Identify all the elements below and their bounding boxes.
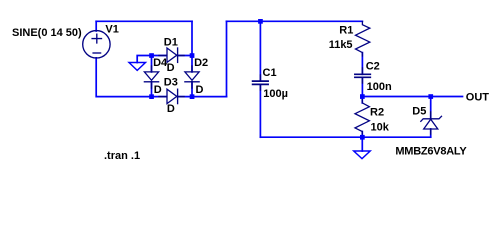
wire V1 top stub [95, 21, 97, 31]
diode D4 cathode lead [151, 82, 153, 88]
svg-text:100n: 100n [367, 81, 392, 93]
svg-text:D2: D2 [194, 57, 208, 69]
zener diode D5 anode lead [430, 129, 432, 134]
capacitor C1 bottom lead stub [259, 84, 261, 90]
wire D4 bottom stub [151, 82, 153, 97]
junction node D5 top [428, 94, 433, 99]
svg-text:C2: C2 [366, 60, 380, 72]
svg-text:MMBZ6V8ALY: MMBZ6V8ALY [395, 145, 467, 157]
svg-text:10k: 10k [371, 121, 390, 133]
wire C1 top lead [259, 21, 261, 80]
wire C2 bottom lead [361, 77, 363, 96]
svg-text:100µ: 100µ [263, 88, 288, 100]
svg-text:D: D [154, 84, 162, 96]
svg-text:D: D [167, 62, 175, 74]
diode D3 cathode lead [178, 96, 184, 98]
V1 plus sign [92, 34, 101, 43]
wire OUT rail [362, 96, 462, 98]
diode D2 cathode lead [191, 82, 193, 88]
diode D1 body [167, 48, 177, 62]
wire bridge top rail right segment [178, 55, 192, 57]
wire R1 bottom lead to C2 [361, 53, 363, 75]
zener diode D5 cathode lead [430, 112, 432, 119]
capacitor C1 top lead stub [259, 75, 261, 80]
junction node C2/R2/OUT [360, 94, 365, 99]
junction node bridge top-right [190, 53, 195, 58]
diode D2 cathode bar [185, 81, 199, 83]
junction node top rail at C1 [258, 19, 263, 24]
wire ground stub right [361, 137, 363, 151]
wire bottom rail from C1 to D5 [260, 136, 430, 138]
svg-text:SINE(0 14 50): SINE(0 14 50) [12, 27, 82, 39]
wire top rail net B from corner to R1 pin [227, 20, 363, 22]
svg-text:V1: V1 [105, 23, 118, 35]
zener diode D5 cathode bar with bent ends [421, 116, 442, 121]
resistor R1 [356, 22, 370, 57]
capacitor C2 bottom lead stub [361, 77, 363, 83]
wire R2 bottom stub [361, 132, 363, 138]
wire riser net B down to bridge bottom rail [226, 21, 228, 96]
capacitor C2 top lead stub [361, 68, 363, 74]
junction node bridge bottom-left [149, 94, 154, 99]
ground flag right [354, 151, 371, 159]
svg-text:D1: D1 [164, 37, 178, 49]
wire D4 top stub [151, 56, 153, 72]
diode D2 body [185, 72, 199, 80]
voltage source V1 circle [83, 31, 110, 58]
diode D4 cathode bar [144, 81, 158, 83]
svg-text:D3: D3 [164, 77, 178, 89]
V1 minus sign [93, 52, 101, 54]
diode D2 anode lead [191, 66, 193, 72]
wire bridge bottom rail right segment [178, 96, 227, 98]
diode D1 cathode bar [177, 48, 179, 62]
diode D1 cathode lead [178, 55, 184, 57]
wire bridge bottom rail mid segment [152, 96, 167, 98]
ground flag left [129, 63, 146, 71]
diode D3 anode lead [159, 96, 167, 98]
diode D3 body [167, 89, 177, 103]
wire V1 bottom lead to bridge bottom rail [96, 58, 151, 97]
svg-text:R2: R2 [370, 107, 384, 119]
junction node bridge top-left [149, 53, 154, 58]
zener diode D5 body [424, 119, 438, 129]
wire D5 bottom lead [430, 129, 432, 137]
junction node bridge bottom-right [190, 94, 195, 99]
wire C1 bottom lead down to bottom rail [259, 85, 261, 137]
svg-text:D5: D5 [412, 106, 426, 118]
junction node bottom rail at R2/ground [360, 135, 365, 140]
svg-text:.tran .1: .tran .1 [104, 150, 140, 162]
resistor R2 [355, 100, 369, 135]
svg-text:C1: C1 [263, 67, 277, 79]
wire ground jog at bridge top-left [137, 56, 151, 63]
wire bridge top rail left segment [152, 55, 167, 57]
svg-text:OUT: OUT [466, 91, 490, 103]
wire R2 top stub [361, 97, 363, 103]
diode D3 cathode bar [177, 89, 179, 103]
wire top rail net A from V1 to bridge riser [96, 20, 192, 22]
diode D4 anode lead [151, 66, 153, 72]
wire D5 top lead [430, 97, 432, 119]
wire D2 top stub [191, 56, 193, 72]
capacitor C1 plates [253, 81, 269, 84]
svg-text:D: D [167, 103, 175, 115]
svg-text:D: D [196, 84, 204, 96]
svg-text:R1: R1 [339, 25, 353, 37]
diode D1 anode lead [159, 55, 167, 57]
wire riser net A down to bridge top-right node [191, 21, 193, 55]
diode D4 body [144, 72, 158, 80]
capacitor C2 plates [355, 74, 370, 77]
svg-text:11k5: 11k5 [329, 39, 353, 51]
wire D2 bottom stub [191, 82, 193, 97]
